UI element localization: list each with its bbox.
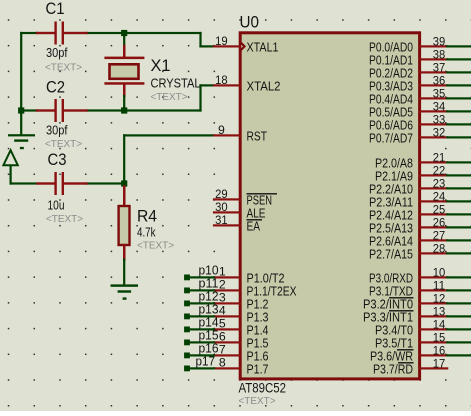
wire RST net horizontal (10, 182, 39, 184)
pin 15 P3.5/T1 (375, 330, 471, 350)
svg-text:15: 15 (433, 330, 446, 344)
pin 17 P3.7/RD (373, 356, 448, 376)
svg-text:EA: EA (247, 218, 261, 233)
resistor R4 (119, 185, 130, 261)
wire net stub p17 (184, 366, 215, 372)
svg-text:8: 8 (219, 355, 226, 369)
pin 12 P3.2/INT0 (363, 291, 471, 311)
svg-text:29: 29 (215, 187, 228, 201)
wire RST vertical riser (123, 134, 125, 184)
wire R4 to ground (123, 258, 125, 285)
crystal X1 (104, 45, 144, 98)
svg-text:11: 11 (433, 278, 446, 292)
pin 36 P0.3/AD3 (369, 73, 471, 93)
pin 14 P3.4/T0 (375, 317, 471, 337)
pin 38 P0.1/AD1 (369, 47, 471, 67)
svg-text:XTAL2: XTAL2 (247, 78, 281, 93)
svg-text:p17: p17 (196, 354, 216, 368)
svg-text:p16: p16 (199, 341, 219, 355)
svg-text:37: 37 (433, 60, 446, 74)
svg-text:P1.7: P1.7 (247, 361, 269, 376)
svg-text:CRYSTAL: CRYSTAL (151, 77, 201, 91)
pin 16 P3.6/WR (370, 343, 471, 363)
ground (left) (8, 134, 35, 149)
svg-text:<TEXT>: <TEXT> (239, 395, 276, 407)
svg-text:<TEXT>: <TEXT> (137, 240, 174, 252)
ground (below R4) (111, 284, 139, 299)
wire net stub p14 (184, 327, 215, 333)
capacitor C1 (36, 22, 88, 45)
svg-text:1: 1 (219, 264, 226, 278)
svg-text:30pf: 30pf (46, 46, 68, 60)
pin 8 P1.7 (213, 355, 269, 376)
svg-text:<TEXT>: <TEXT> (46, 213, 83, 225)
svg-text:C1: C1 (46, 0, 65, 18)
wire XTAL1 corner to pin 19 (199, 32, 201, 48)
pin 2 P1.1/T2EX (213, 277, 297, 298)
node junction crystal bottom (121, 107, 127, 113)
pin 6 P1.5 (213, 329, 269, 350)
svg-text:p13: p13 (199, 302, 219, 316)
svg-text:23: 23 (433, 176, 446, 190)
svg-text:C3: C3 (48, 151, 67, 169)
clock input marker XTAL1 (241, 42, 246, 52)
svg-text:21: 21 (433, 150, 446, 164)
svg-text:35: 35 (433, 86, 446, 100)
wire left vertical C1-to-ground (20, 32, 22, 135)
node junction RST/R4 (121, 180, 127, 186)
svg-text:9: 9 (218, 123, 225, 137)
svg-text:30: 30 (215, 200, 228, 214)
svg-text:p10: p10 (199, 263, 219, 277)
svg-text:6: 6 (219, 329, 226, 343)
wire XTAL2 corner to pin 18 (199, 84, 201, 111)
svg-text:C2: C2 (46, 79, 65, 97)
pin 18 XTAL2 (213, 73, 281, 93)
svg-text:25: 25 (433, 202, 446, 216)
wire net stub p11 (184, 288, 215, 294)
svg-text:p11: p11 (199, 276, 219, 290)
svg-text:2: 2 (219, 277, 226, 291)
pin 31 EA (213, 213, 262, 233)
pin 39 P0.0/AD0 (369, 34, 471, 54)
pin 26 P2.5/A13 (369, 215, 471, 235)
power terminal arrow (3, 150, 17, 184)
pin 24 P2.3/A11 (369, 189, 471, 209)
svg-text:38: 38 (433, 47, 446, 61)
svg-text:16: 16 (433, 343, 446, 357)
pin 29 PSEN (213, 187, 277, 207)
svg-text:34: 34 (433, 99, 446, 113)
wire XTAL1 net horizontal top (20, 32, 202, 34)
svg-text:39: 39 (433, 34, 446, 48)
pin 30 ALE (213, 200, 266, 220)
svg-text:P2.7/A15: P2.7/A15 (369, 246, 413, 261)
pin 35 P0.4/AD4 (369, 86, 471, 106)
svg-text:3: 3 (219, 290, 226, 304)
wire net stub p15 (184, 340, 215, 346)
pin 28 P2.7/A15 (369, 241, 471, 261)
svg-text:p12: p12 (199, 289, 219, 303)
svg-text:10: 10 (433, 265, 446, 279)
svg-text:R4: R4 (137, 208, 157, 226)
svg-text:7: 7 (219, 342, 226, 356)
pin 10 P3.0/RXD (369, 265, 471, 285)
svg-text:27: 27 (433, 228, 446, 242)
capacitor C2 (36, 99, 88, 122)
pin 21 P2.0/A8 (375, 150, 471, 170)
pin 34 P0.5/AD5 (369, 99, 471, 119)
pin 32 P0.7/AD7 (369, 125, 471, 145)
op-amp/MCU U0 AT89C52 body (240, 33, 419, 379)
svg-text:X1: X1 (151, 57, 171, 75)
svg-text:p14: p14 (199, 315, 219, 329)
svg-text:10u: 10u (48, 199, 65, 213)
svg-text:33: 33 (433, 112, 446, 126)
pin 4 P1.3 (213, 303, 269, 324)
svg-text:18: 18 (215, 73, 228, 87)
node junction C2/ground (18, 107, 24, 113)
node junction crystal top (121, 30, 127, 36)
pin 25 P2.4/A12 (369, 202, 471, 222)
pin 37 P0.2/AD2 (369, 60, 471, 80)
wire crystal bottom lead (123, 95, 125, 112)
svg-text:26: 26 (433, 215, 446, 229)
svg-text:p15: p15 (199, 328, 219, 342)
pin 22 P2.1/A9 (375, 163, 471, 183)
pin 9 RST (213, 123, 267, 143)
svg-text:24: 24 (433, 189, 446, 203)
svg-text:14: 14 (433, 317, 446, 331)
svg-text:XTAL1: XTAL1 (247, 39, 279, 54)
svg-text:4.7k: 4.7k (137, 226, 156, 240)
svg-text:12: 12 (433, 291, 446, 305)
svg-text:P3.7/RD: P3.7/RD (373, 361, 413, 376)
pin 33 P0.6/AD6 (369, 112, 471, 132)
wire XTAL2 net horizontal (20, 109, 38, 111)
capacitor C3 (36, 172, 87, 195)
svg-text:32: 32 (433, 125, 446, 139)
svg-text:28: 28 (433, 241, 446, 255)
wire net stub p13 (184, 314, 215, 320)
svg-text:AT89C52: AT89C52 (239, 380, 287, 395)
pin 11 P3.1/TXD (369, 278, 471, 298)
svg-text:5: 5 (219, 316, 226, 330)
pin 1 P1.0/T2 (213, 264, 285, 285)
svg-text:<TEXT>: <TEXT> (45, 138, 82, 150)
svg-text:U0: U0 (240, 14, 260, 32)
svg-text:22: 22 (433, 163, 446, 177)
svg-text:17: 17 (433, 356, 446, 370)
svg-text:<TEXT>: <TEXT> (151, 91, 188, 103)
svg-text:36: 36 (433, 73, 446, 87)
pin 3 P1.2 (213, 290, 269, 311)
pin 7 P1.6 (213, 342, 269, 363)
svg-text:<TEXT>: <TEXT> (45, 62, 82, 74)
svg-text:P0.7/AD7: P0.7/AD7 (369, 130, 413, 145)
wire net stub p12 (184, 301, 215, 307)
wire RST to pin 9 (123, 134, 215, 136)
pin 5 P1.4 (213, 316, 269, 337)
pin 27 P2.6/A14 (369, 228, 471, 248)
svg-text:19: 19 (215, 34, 228, 48)
pin 23 P2.2/A10 (369, 176, 471, 196)
pin 19 XTAL1 (213, 34, 279, 54)
svg-text:30pf: 30pf (46, 123, 68, 137)
svg-text:31: 31 (215, 213, 228, 227)
svg-text:RST: RST (247, 128, 268, 143)
wire crystal top lead (123, 32, 125, 47)
svg-text:13: 13 (433, 304, 446, 318)
pin 13 P3.3/INT1 (363, 304, 471, 324)
svg-text:4: 4 (219, 303, 226, 317)
wire net stub p16 (184, 353, 215, 359)
wire net stub p10 (184, 275, 215, 281)
